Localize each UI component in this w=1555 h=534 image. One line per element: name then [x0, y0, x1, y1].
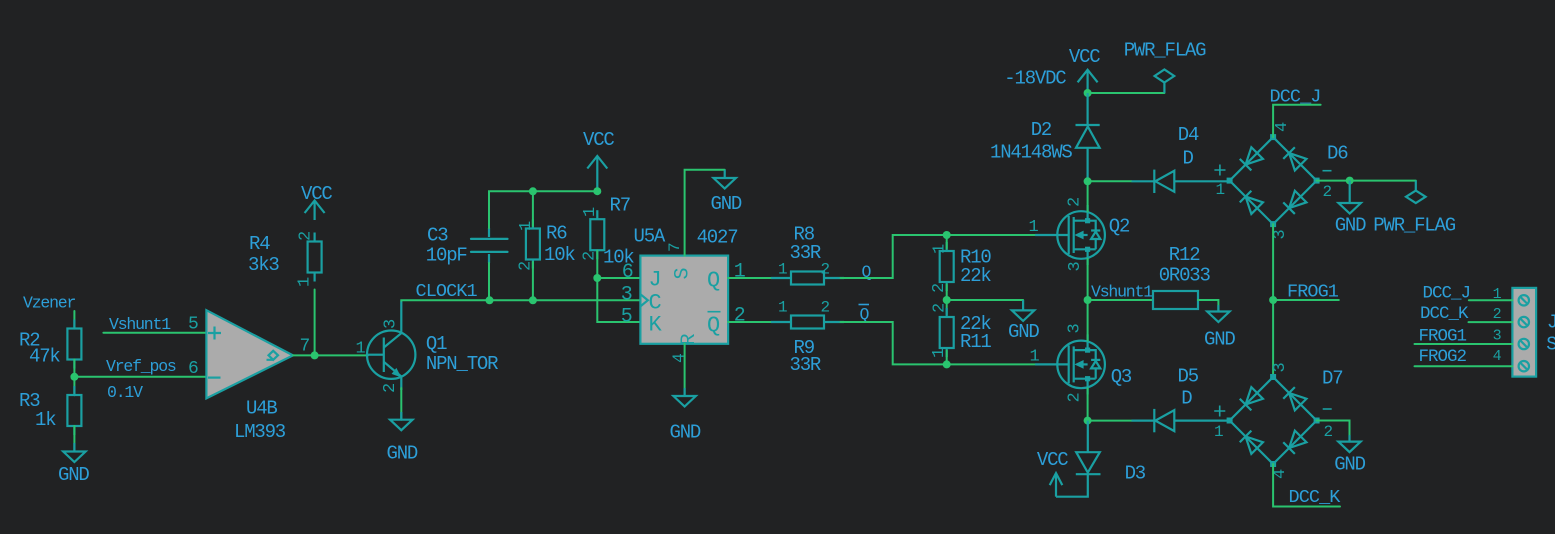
resistor R10: [930, 242, 991, 293]
wire R7 bottom: [596, 251, 598, 279]
resistor R12: [1153, 244, 1211, 309]
resistor R3: [19, 386, 81, 435]
power VCC -18VDC: [1004, 46, 1100, 93]
svg-text:J: J: [649, 268, 661, 293]
svg-text:0R033: 0R033: [1159, 264, 1211, 286]
wire R3 to ground: [73, 426, 75, 452]
resistor R2: [19, 320, 81, 369]
net label Vshunt1: [109, 315, 171, 334]
resistor R11: [930, 304, 991, 358]
wire to U5A pin K: [597, 278, 640, 322]
ground (R10/R11): [1008, 300, 1039, 343]
svg-text:3: 3: [1066, 262, 1085, 272]
svg-text:3: 3: [1271, 363, 1290, 373]
svg-text:Screw: Screw: [1546, 333, 1555, 355]
svg-text:C3: C3: [427, 225, 448, 247]
net label Q: [862, 263, 872, 282]
flip-flop U5A: [621, 226, 746, 364]
bridge rectifier D7: [1214, 363, 1342, 480]
svg-text:22k: 22k: [960, 265, 991, 287]
svg-text:PWR_FLAG: PWR_FLAG: [1124, 40, 1206, 62]
svg-text:DCC_K: DCC_K: [1420, 304, 1469, 324]
svg-text:Vzener: Vzener: [23, 294, 76, 313]
svg-text:DCC_K: DCC_K: [1289, 487, 1342, 508]
net label Vshunt1 (right): [1091, 283, 1153, 302]
ground (Q1): [387, 412, 418, 465]
wire C3 top: [489, 191, 597, 228]
node R6 bottom junction: [529, 296, 537, 304]
node FROG1 junction: [1269, 296, 1277, 304]
svg-text:D2: D2: [1031, 119, 1052, 141]
svg-text:Q: Q: [707, 268, 720, 293]
net label FROG2 (connector): [1419, 347, 1467, 367]
svg-text:33R: 33R: [790, 242, 821, 264]
wire Q3 source: [1087, 388, 1089, 420]
svg-text:1: 1: [778, 299, 787, 317]
svg-text:FROG2: FROG2: [1419, 347, 1467, 367]
svg-text:6: 6: [188, 359, 198, 379]
wire R11 bottom: [946, 351, 948, 365]
node Vshunt1 junction: [1084, 296, 1092, 304]
svg-text:3: 3: [621, 283, 632, 306]
net label DCC_K (bridge): [1289, 487, 1342, 508]
wire FROG1 pin 3: [1415, 343, 1513, 345]
ground (D7): [1334, 435, 1365, 476]
text 0.1V: [107, 383, 143, 402]
power VCC (R7): [583, 129, 614, 191]
svg-text:Q1: Q1: [426, 333, 447, 355]
wire FROG1 stub: [1273, 299, 1339, 301]
svg-text:VCC: VCC: [583, 129, 614, 151]
power VCC (R4): [301, 183, 332, 220]
connector J1: [1493, 286, 1555, 376]
net label Vzener: [23, 294, 76, 313]
svg-text:10k: 10k: [544, 244, 575, 266]
svg-text:LM393: LM393: [234, 421, 286, 443]
svg-text:D7: D7: [1322, 368, 1342, 390]
wire D6 output: [1317, 180, 1350, 182]
svg-text:4027: 4027: [697, 227, 738, 249]
svg-text:U4B: U4B: [246, 398, 277, 420]
wire U5A pin 7 to ground: [685, 170, 725, 256]
svg-text:S: S: [672, 268, 695, 280]
wire Q2 drain: [1087, 181, 1089, 211]
wire DCC_K pin 2: [1469, 321, 1513, 323]
transistor Q2: [1029, 198, 1131, 272]
svg-text:4: 4: [670, 353, 689, 363]
svg-text:3: 3: [1066, 324, 1085, 334]
svg-text:7: 7: [666, 243, 684, 252]
node D6 minus junction: [1346, 177, 1354, 185]
svg-text:1: 1: [356, 340, 366, 359]
svg-text:GND: GND: [1204, 329, 1235, 351]
wire mid to ground: [947, 299, 1023, 301]
wire Vshunt1 to R12: [1088, 299, 1153, 301]
wire D7 output: [1317, 421, 1350, 442]
flag PWR_FLAG (right): [1373, 181, 1455, 237]
wire VCC to PWR_FLAG: [1088, 92, 1165, 94]
svg-text:3: 3: [1493, 328, 1502, 345]
ground (U5A pin 4): [670, 388, 701, 444]
node C3 bottom junction: [486, 296, 494, 304]
wire U5A pin 4 to ground: [684, 344, 686, 395]
flag PWR_FLAG (top): [1124, 40, 1206, 94]
svg-text:2: 2: [297, 232, 316, 241]
svg-text:Vshunt1: Vshunt1: [109, 315, 171, 334]
svg-text:2: 2: [381, 384, 400, 393]
diode D4: [1132, 124, 1230, 193]
svg-text:Vshunt1: Vshunt1: [1091, 283, 1153, 302]
wire R6 bottom: [532, 262, 534, 300]
node Q2 drain junction: [1084, 177, 1092, 185]
svg-text:D5: D5: [1178, 366, 1199, 388]
ground (D6): [1335, 181, 1366, 237]
svg-text:D3: D3: [1125, 463, 1146, 485]
svg-text:2: 2: [821, 299, 830, 317]
node R10 top junction: [943, 231, 951, 239]
wire U5A Qbar to R9: [728, 321, 791, 323]
diode D2: [990, 93, 1100, 181]
svg-text:R4: R4: [249, 233, 270, 255]
svg-text:4: 4: [1493, 348, 1502, 365]
svg-text:1: 1: [734, 261, 746, 284]
wire FROG2 pin 4: [1415, 365, 1513, 367]
svg-text:-18VDC: -18VDC: [1004, 68, 1066, 90]
resistor R8: [771, 224, 844, 285]
svg-text:D: D: [1181, 387, 1192, 409]
bridge rectifier D6: [1214, 122, 1348, 240]
svg-text:2: 2: [931, 304, 950, 313]
wire DCC_K: [1273, 464, 1340, 507]
svg-text:1: 1: [1214, 423, 1223, 441]
svg-text:K: K: [649, 313, 663, 338]
net label DCC_K (connector): [1420, 304, 1469, 324]
svg-text:CLOCK1: CLOCK1: [416, 281, 478, 302]
svg-text:VCC: VCC: [301, 183, 332, 205]
node R7 top junction: [593, 187, 601, 195]
node VCC junction: [1084, 89, 1092, 97]
diode D3: [1056, 421, 1146, 497]
svg-text:2: 2: [1066, 393, 1085, 402]
svg-text:10pF: 10pF: [426, 245, 468, 267]
svg-text:R: R: [678, 334, 701, 346]
svg-text:VCC: VCC: [1037, 449, 1068, 471]
wire R2 to R3: [73, 360, 75, 396]
svg-text:7: 7: [300, 337, 310, 357]
net label CLOCK1: [416, 281, 478, 302]
svg-text:Q: Q: [707, 313, 720, 338]
svg-text:Q3: Q3: [1111, 366, 1132, 388]
net label Qbar: [859, 305, 870, 325]
node R7/J/K junction: [593, 274, 601, 282]
svg-text:GND: GND: [387, 443, 418, 465]
wire Q1 emitter to ground: [400, 388, 402, 420]
svg-text:1: 1: [1029, 218, 1039, 237]
resistor R6: [517, 220, 576, 272]
wire R10 top: [946, 235, 948, 249]
svg-text:2: 2: [1323, 183, 1332, 201]
svg-text:GND: GND: [670, 422, 701, 444]
wire Vshunt1 to U4B pin 5: [103, 332, 206, 334]
transistor Q3: [1030, 324, 1132, 403]
resistor R9: [771, 299, 844, 377]
wire R6 top: [532, 191, 534, 226]
node R11 bottom junction: [943, 360, 951, 368]
svg-text:Vref_pos: Vref_pos: [106, 357, 176, 376]
svg-text:1: 1: [778, 261, 787, 279]
wire U5A Q to R8: [728, 277, 791, 279]
svg-text:PWR_FLAG: PWR_FLAG: [1373, 215, 1455, 237]
diode D5: [1132, 366, 1230, 433]
resistor R4: [248, 232, 322, 287]
svg-text:NPN_TOR: NPN_TOR: [426, 353, 498, 375]
ground: [58, 443, 89, 486]
svg-text:J1: J1: [1547, 312, 1555, 334]
svg-text:2: 2: [1324, 423, 1333, 441]
svg-text:2: 2: [821, 261, 830, 279]
ground (R12): [1204, 305, 1235, 351]
wire R12 to ground: [1198, 300, 1218, 312]
svg-text:GND: GND: [1334, 454, 1365, 476]
svg-text:D4: D4: [1178, 124, 1199, 146]
wire to PWR_FLAG (right): [1350, 180, 1416, 182]
net label DCC_J (bridge): [1270, 87, 1321, 108]
wire U4B output: [293, 354, 315, 356]
svg-text:2: 2: [1066, 198, 1085, 207]
svg-text:1k: 1k: [35, 409, 56, 431]
svg-text:1: 1: [1030, 348, 1040, 367]
svg-text:5: 5: [188, 315, 198, 335]
wire Q2 source to Vshunt1: [1087, 259, 1089, 300]
resistor R7: [581, 195, 635, 269]
svg-text:DCC_J: DCC_J: [1423, 284, 1471, 304]
wire CLOCK1: [401, 299, 640, 302]
svg-text:Q2: Q2: [1109, 216, 1130, 238]
net label FROG1 (connector): [1419, 327, 1467, 347]
svg-text:D: D: [1183, 148, 1194, 170]
wire to U5A pin J: [597, 277, 640, 279]
svg-text:1: 1: [1216, 181, 1225, 199]
wire Q3 drain: [1087, 300, 1089, 341]
svg-text:47k: 47k: [29, 346, 60, 368]
svg-text:R12: R12: [1169, 244, 1200, 266]
wire Vzener to R2: [73, 311, 75, 329]
wire FROG1 to D7: [1272, 300, 1274, 377]
capacitor C3: [426, 225, 508, 267]
svg-text:R11: R11: [960, 331, 991, 353]
svg-text:R7: R7: [610, 195, 630, 217]
wire C3 bottom: [488, 263, 490, 300]
wire DCC_J pin 1: [1469, 299, 1513, 301]
svg-text:GND: GND: [1008, 321, 1039, 343]
svg-text:U5A: U5A: [634, 226, 666, 248]
svg-text:3k3: 3k3: [248, 254, 279, 276]
wire source rail to D5: [1088, 420, 1132, 422]
svg-text:1N4148WS: 1N4148WS: [990, 141, 1072, 163]
wire R10 to R11: [946, 285, 948, 315]
svg-text:2: 2: [734, 305, 745, 328]
svg-text:3: 3: [382, 319, 401, 329]
transistor Q1: [356, 301, 499, 393]
node output junction: [311, 351, 319, 359]
svg-text:VCC: VCC: [1069, 46, 1100, 68]
wire DCC_J: [1273, 105, 1321, 137]
svg-text:GND: GND: [58, 464, 89, 486]
wire output to R4: [314, 290, 316, 356]
svg-text:33R: 33R: [790, 354, 821, 376]
wire output to Q1 base: [315, 354, 368, 356]
wire Vref_pos to U4B pin 6: [74, 376, 206, 378]
svg-text:D6: D6: [1327, 143, 1348, 165]
net label FROG1 (bridge): [1287, 281, 1339, 302]
wire Q net: [841, 235, 1036, 278]
svg-text:4: 4: [1273, 122, 1292, 132]
svg-text:0.1V: 0.1V: [107, 383, 143, 402]
svg-text:GND: GND: [1335, 215, 1366, 237]
wire D6 to FROG1: [1272, 224, 1274, 300]
node Q3 source junction: [1084, 417, 1092, 425]
svg-text:1: 1: [581, 207, 600, 217]
wire Qbar net: [841, 322, 1036, 364]
svg-text:2: 2: [1493, 306, 1501, 323]
wire drain rail to D4: [1088, 180, 1132, 182]
net label DCC_J (connector): [1423, 284, 1471, 304]
svg-text:6: 6: [622, 261, 633, 284]
node R10/R11 midpoint: [943, 296, 951, 304]
net label Vref_pos: [106, 357, 176, 376]
svg-text:GND: GND: [711, 193, 742, 215]
power VCC (D3): [1037, 449, 1068, 497]
op-amp U4B: [188, 310, 310, 443]
svg-text:1: 1: [296, 277, 315, 287]
ground (U5A pin 7): [711, 170, 742, 215]
node Vref junction: [70, 373, 78, 381]
node R6 top junction: [529, 187, 537, 195]
svg-text:R6: R6: [546, 223, 567, 245]
svg-text:5: 5: [621, 305, 632, 328]
